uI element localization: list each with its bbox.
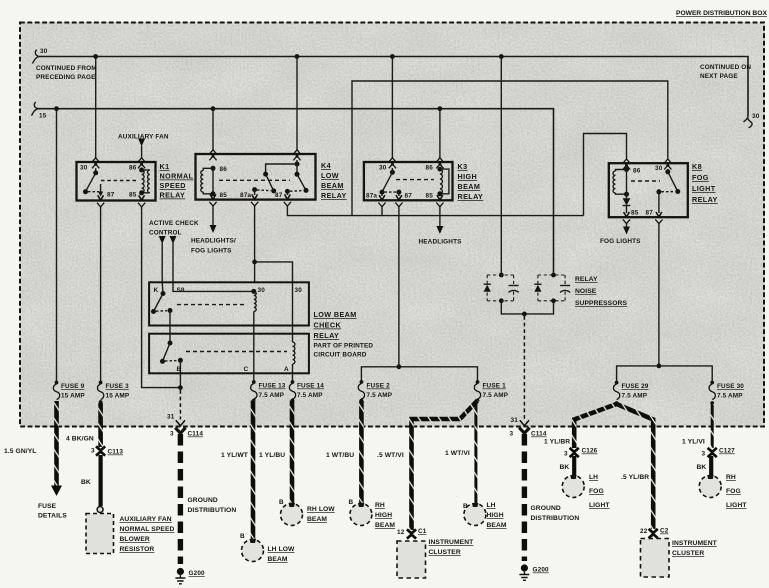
svg-text:1 WT/BU: 1 WT/BU — [326, 452, 354, 459]
K4 coil — [211, 166, 216, 171]
svg-text:K8: K8 — [692, 162, 702, 171]
svg-text:1 YL/VI: 1 YL/VI — [682, 439, 705, 446]
wire BK to LH fog — [572, 456, 576, 475]
K8 pin 87 exit — [655, 212, 662, 224]
svg-text:A: A — [284, 366, 289, 373]
svg-text:30: 30 — [752, 113, 760, 120]
svg-text:NEXT PAGE: NEXT PAGE — [700, 73, 738, 80]
svg-text:86: 86 — [129, 165, 137, 172]
svg-text:POWER DISTRIBUTION BOX: POWER DISTRIBUTION BOX — [676, 10, 767, 17]
svg-text:85: 85 — [129, 192, 137, 199]
svg-text:FOG: FOG — [589, 488, 604, 495]
svg-text:K1: K1 — [160, 162, 170, 171]
K3 switch — [390, 170, 395, 175]
ground distribution column 1 — [167, 385, 205, 584]
junction: bus15 to K3 86 — [438, 106, 443, 111]
node: 30 continuation squiggle left — [33, 50, 40, 64]
wire: K3 87 down — [398, 207, 400, 367]
svg-text:AUXILIARY FAN: AUXILIARY FAN — [118, 134, 169, 141]
RH high beam — [349, 499, 372, 526]
svg-text:LH: LH — [589, 474, 598, 481]
svg-text:7.5 AMP: 7.5 AMP — [717, 393, 743, 400]
svg-text:FOG LIGHTS: FOG LIGHTS — [600, 238, 641, 245]
svg-text:LIGHT: LIGHT — [692, 184, 716, 193]
fuse 9 — [53, 381, 85, 400]
thin wire: fuse 1 to LH high beam — [474, 402, 477, 504]
K4 pin 86 entry — [209, 150, 217, 161]
svg-text:30: 30 — [655, 165, 663, 172]
wire: K4 87 to low-beam feed rail — [287, 206, 583, 216]
svg-text:HIGH: HIGH — [458, 172, 478, 181]
K4 pin 30 entry — [293, 150, 301, 161]
svg-text:7.5 AMP: 7.5 AMP — [297, 392, 323, 399]
svg-text:BK: BK — [560, 464, 570, 471]
svg-text:INSTRUMENT: INSTRUMENT — [672, 540, 718, 547]
wire: K8 87 down — [658, 224, 660, 366]
svg-text:ACTIVE CHECK: ACTIVE CHECK — [149, 220, 199, 227]
K3 pin 30 entry — [388, 158, 396, 169]
check relay switch 2 — [169, 311, 171, 344]
K8 coil — [624, 167, 629, 172]
low beam check relay lower box — [149, 282, 309, 387]
thin wire: fuse 30 to C127 — [711, 404, 714, 448]
svg-text:7.5 AMP: 7.5 AMP — [259, 392, 285, 399]
svg-text:K4: K4 — [321, 161, 331, 170]
svg-text:3: 3 — [702, 451, 706, 458]
svg-text:LOW BEAM: LOW BEAM — [314, 310, 357, 319]
K1 pin 86 entry — [138, 158, 146, 169]
suppressor ground tie — [501, 301, 553, 314]
svg-text:CHECK: CHECK — [314, 321, 342, 330]
svg-text:15 AMP: 15 AMP — [106, 393, 130, 400]
svg-text:85: 85 — [220, 192, 228, 199]
svg-text:FOG: FOG — [726, 488, 741, 495]
svg-text:S8: S8 — [177, 287, 185, 294]
K8 pin 30 entry — [664, 159, 672, 170]
LH fog light — [562, 475, 584, 498]
instrument cluster 2 — [640, 528, 669, 578]
K4 pin 87a exit — [254, 190, 256, 195]
K3 pin 86 entry — [436, 158, 444, 169]
wire: rail up to K8 30 — [352, 81, 668, 216]
wire BK to resistor — [98, 455, 102, 506]
svg-text:RELAY: RELAY — [314, 331, 340, 340]
svg-text:INSTRUMENT: INSTRUMENT — [429, 539, 475, 546]
check relay switch 1 — [161, 291, 166, 296]
svg-text:FOG: FOG — [692, 173, 709, 182]
svg-text:85: 85 — [631, 210, 639, 217]
wire: split to FUSE 29 and FUSE 30 — [617, 366, 713, 382]
wire: rail to K8 86 — [584, 134, 627, 216]
svg-text:B: B — [349, 499, 354, 506]
svg-text:C114: C114 — [188, 431, 204, 438]
svg-text:BK: BK — [81, 479, 91, 486]
svg-text:22: 22 — [640, 528, 648, 535]
fuse 29 — [613, 381, 648, 405]
svg-text:HIGH: HIGH — [375, 512, 392, 519]
svg-text:C: C — [244, 366, 249, 373]
svg-text:RESISTOR: RESISTOR — [120, 546, 155, 553]
fuse 2 — [358, 380, 393, 402]
svg-text:3: 3 — [564, 451, 568, 458]
low beam check relay upper box — [149, 282, 309, 325]
fuse 30 — [709, 381, 744, 405]
instrument cluster 1 — [397, 528, 427, 578]
svg-text:FOG LIGHTS: FOG LIGHTS — [191, 248, 232, 255]
svg-text:RELAY: RELAY — [458, 192, 484, 201]
svg-text:LIGHT: LIGHT — [726, 502, 747, 509]
RH fog light — [699, 475, 721, 498]
ground distribution column 2 — [510, 316, 550, 580]
svg-text:NORMAL SPEED: NORMAL SPEED — [120, 526, 175, 533]
relay K1 box — [77, 158, 194, 207]
relay noise suppressor 1 — [484, 273, 519, 304]
check relay link 2 — [186, 351, 287, 353]
wire: active check control to check relay K — [161, 243, 163, 282]
svg-text:RELAY: RELAY — [692, 195, 718, 204]
svg-text:BEAM: BEAM — [487, 522, 507, 529]
svg-text:C2: C2 — [660, 528, 669, 535]
wire: bus15 to K4 pin86 — [212, 109, 214, 150]
svg-text:15 AMP: 15 AMP — [61, 393, 85, 400]
svg-text:1.5 GN/YL: 1.5 GN/YL — [4, 448, 37, 455]
svg-text:FUSE 30: FUSE 30 — [717, 383, 744, 390]
connector C126 — [570, 448, 579, 457]
wire: AUXILIARY FAN to K1 pin86 — [141, 146, 143, 158]
wire: bus30 to K3 pin30 — [391, 57, 393, 159]
suppressor 2 diode — [534, 285, 541, 292]
svg-text:3: 3 — [91, 448, 95, 455]
svg-text:85: 85 — [426, 193, 434, 200]
svg-text:RELAY: RELAY — [160, 191, 186, 200]
node: 15 continuation squiggle — [32, 102, 39, 116]
svg-text:BEAM: BEAM — [268, 556, 288, 563]
node: 30 continuation squiggle right — [744, 116, 753, 128]
svg-text:30: 30 — [295, 287, 303, 294]
svg-text:G200: G200 — [533, 567, 550, 574]
LH high beam — [463, 503, 486, 526]
svg-text:BEAM: BEAM — [458, 182, 481, 191]
K8 pin 86 entry — [623, 159, 631, 170]
svg-text:PART OF PRINTED: PART OF PRINTED — [314, 343, 374, 350]
svg-text:RELAY: RELAY — [321, 191, 347, 200]
svg-text:CONTROL: CONTROL — [149, 230, 182, 237]
svg-text:AUXILIARY FAN: AUXILIARY FAN — [120, 516, 172, 523]
svg-text:CLUSTER: CLUSTER — [429, 549, 461, 556]
thick wire: fuse 3 to C113 — [98, 403, 103, 447]
svg-text:BEAM: BEAM — [375, 522, 395, 529]
K1 pin 87 — [100, 184, 102, 194]
K8 pin 85 exit — [623, 212, 630, 224]
svg-text:FUSE 1: FUSE 1 — [483, 383, 507, 390]
svg-text:12: 12 — [397, 529, 405, 536]
svg-text:DISTRIBUTION: DISTRIBUTION — [188, 507, 237, 514]
svg-text:30: 30 — [258, 287, 266, 294]
junction: bus30 to K3 — [390, 54, 395, 59]
K1 pin 30 entry — [92, 158, 100, 169]
fuse 1 — [474, 380, 508, 402]
svg-text:G200: G200 — [189, 570, 206, 577]
fuse 3 — [97, 381, 129, 404]
wire: bus15 to FUSE 9 — [56, 109, 58, 382]
svg-text:4 BK/GN: 4 BK/GN — [66, 436, 94, 443]
thick wire: fuse 29 split — [574, 404, 616, 448]
K4 mechanical link — [219, 179, 290, 181]
svg-text:FUSE 13: FUSE 13 — [259, 383, 286, 390]
svg-text:87: 87 — [646, 210, 654, 217]
wire: bus30 to K1 pin30 — [95, 57, 97, 159]
svg-text:87a: 87a — [366, 193, 377, 200]
K8 diode — [623, 198, 631, 205]
K1 switch — [95, 168, 97, 173]
svg-text:CIRCUIT BOARD: CIRCUIT BOARD — [314, 352, 367, 359]
svg-text:LH: LH — [487, 502, 496, 509]
connector C127 — [708, 448, 717, 457]
svg-text:HIGH: HIGH — [487, 512, 504, 519]
svg-text:FUSE 2: FUSE 2 — [367, 383, 391, 390]
relay K3 box — [364, 158, 483, 207]
svg-text:1 WT/VI: 1 WT/VI — [445, 450, 470, 457]
S8 feed to coil 1 — [173, 282, 252, 291]
check relay coil A — [292, 282, 294, 342]
svg-text:30: 30 — [379, 165, 387, 172]
svg-text:BK: BK — [697, 464, 707, 471]
suppressor 2 capacitor — [564, 275, 566, 285]
svg-text:86: 86 — [633, 168, 641, 175]
wire: coil1 through to C terminal — [253, 311, 255, 382]
K8 mechanical link — [631, 180, 660, 182]
svg-text:HEADLIGHTS/: HEADLIGHTS/ — [191, 238, 236, 245]
wire 30 bus — [39, 57, 748, 117]
svg-text:FUSE 3: FUSE 3 — [106, 383, 130, 390]
svg-text:FUSE: FUSE — [38, 503, 57, 510]
svg-text:30: 30 — [40, 48, 48, 55]
svg-text:.5 WT/VI: .5 WT/VI — [377, 452, 404, 459]
suppressor 1 capacitor — [513, 275, 515, 285]
junction: bus15 to fuse 9 — [54, 106, 59, 111]
wire: branch to check relay second 30 — [255, 262, 293, 282]
svg-text:B: B — [279, 499, 284, 506]
wire: K1 85 ground side to C114 — [142, 206, 181, 388]
suppressor 1 diode — [484, 285, 491, 292]
auxiliary fan blower resistor — [86, 507, 114, 554]
thick wire: fuse 9 to fuse details — [54, 401, 59, 486]
K3 mechanical link — [396, 179, 434, 181]
check relay coil 1 — [254, 291, 256, 311]
wire: K4 87a to check relay — [254, 206, 256, 282]
svg-text:K: K — [154, 287, 159, 294]
wire: K3 87a down to rail — [381, 207, 383, 216]
svg-text:3: 3 — [510, 431, 514, 438]
K4 switch bracket — [295, 162, 300, 167]
svg-text:SUPPRESSORS: SUPPRESSORS — [575, 300, 627, 307]
svg-text:RELAY: RELAY — [575, 276, 598, 283]
wire: K3 85 to headlights arrow — [439, 207, 441, 227]
svg-text:30: 30 — [80, 165, 88, 172]
svg-text:LH LOW: LH LOW — [268, 546, 296, 553]
svg-text:GROUND: GROUND — [188, 497, 218, 504]
svg-text:87a: 87a — [240, 192, 251, 199]
svg-text:LIGHT: LIGHT — [589, 502, 610, 509]
LH low beam — [240, 533, 264, 562]
B wire exit — [179, 360, 181, 387]
svg-text:87: 87 — [405, 193, 413, 200]
K3 pin 87 exit — [398, 194, 400, 196]
svg-text:C1: C1 — [418, 528, 427, 535]
arrow from auxiliary fan — [138, 139, 145, 147]
svg-text:CONTINUED ON: CONTINUED ON — [700, 64, 751, 71]
svg-text:3: 3 — [170, 431, 174, 438]
K4 switch 1 — [263, 172, 268, 177]
junction: bus30 to K4 — [295, 54, 300, 59]
svg-text:CONTINUED FROM: CONTINUED FROM — [36, 65, 97, 72]
svg-text:RH: RH — [375, 502, 385, 509]
svg-text:DETAILS: DETAILS — [38, 513, 67, 520]
svg-text:DISTRIBUTION: DISTRIBUTION — [531, 515, 580, 522]
svg-text:86: 86 — [220, 166, 228, 173]
svg-text:1 YL/WT: 1 YL/WT — [221, 452, 249, 459]
thick wire: fuse 1 split jog — [412, 401, 478, 531]
relay K4 box — [196, 150, 347, 206]
thick wire: fuse 2 to RH high beam — [359, 401, 364, 504]
svg-text:BEAM: BEAM — [307, 516, 327, 523]
relay K8 box — [609, 159, 718, 224]
svg-text:7.5 AMP: 7.5 AMP — [367, 392, 393, 399]
svg-text:31: 31 — [167, 414, 175, 421]
K1 pin 85 exit — [138, 195, 145, 207]
svg-text:7.5 AMP: 7.5 AMP — [483, 392, 509, 399]
wire: split to FUSE 2 and FUSE 1 — [361, 367, 477, 382]
active check control arrows — [159, 236, 166, 244]
svg-text:B: B — [240, 533, 245, 540]
wire: K1 87 to FUSE 3 — [100, 206, 102, 382]
svg-text:SPEED: SPEED — [160, 181, 186, 190]
K3 pin 87a exit — [381, 194, 383, 196]
svg-text:C113: C113 — [108, 449, 124, 456]
svg-text:CLUSTER: CLUSTER — [672, 550, 704, 557]
RH low beam — [279, 499, 303, 526]
K1 coil — [139, 168, 144, 173]
thick wire: fuse 14 to RH low beam — [290, 401, 295, 504]
svg-text:7.5 AMP: 7.5 AMP — [622, 393, 648, 400]
wire 15 bus — [38, 109, 554, 275]
K3 coil — [437, 167, 442, 172]
K4 pin 85 exit — [209, 194, 216, 206]
svg-text:FUSE 14: FUSE 14 — [297, 383, 324, 390]
junction: bus30 to suppressor 1 — [499, 54, 504, 59]
svg-text:HEADLIGHTS: HEADLIGHTS — [419, 239, 463, 246]
svg-text:FUSE 29: FUSE 29 — [622, 383, 649, 390]
svg-text:C114: C114 — [531, 431, 547, 438]
fuse 14 — [289, 380, 324, 402]
svg-text:1 YL/BR: 1 YL/BR — [544, 439, 570, 446]
svg-text:K3: K3 — [458, 162, 468, 171]
svg-text:C126: C126 — [582, 448, 598, 455]
svg-text:C127: C127 — [719, 448, 735, 455]
svg-text:BLOWER: BLOWER — [120, 536, 150, 543]
svg-text:31: 31 — [511, 417, 519, 424]
svg-text:LOW: LOW — [321, 171, 339, 180]
K8 switch — [665, 169, 670, 174]
wire: bus30 to noise suppressor 1 — [500, 57, 502, 276]
wire: bus30 to K4 pin30 — [296, 57, 298, 151]
wire: K8 85 to fog lights arrow — [626, 224, 628, 227]
svg-text:RH: RH — [726, 474, 736, 481]
svg-text:NOISE: NOISE — [575, 288, 597, 295]
svg-text:87: 87 — [275, 192, 283, 199]
power distribution box shaded interior — [20, 22, 765, 427]
junction: bus30 to K1 — [93, 54, 98, 59]
svg-text:PRECEDING PAGE: PRECEDING PAGE — [36, 74, 96, 81]
svg-text:87: 87 — [107, 192, 115, 199]
K4 pin 87 exit — [286, 191, 288, 195]
svg-text:15: 15 — [39, 113, 47, 120]
svg-text:GROUND: GROUND — [531, 505, 561, 512]
svg-text:NORMAL: NORMAL — [160, 172, 194, 181]
fuse 13 — [251, 380, 286, 402]
K4 switch 2 — [295, 172, 300, 177]
wire: K4 85 to headlights/fog lights arrow — [212, 206, 214, 225]
svg-text:BEAM: BEAM — [321, 181, 344, 190]
power distribution box dashed border — [20, 23, 764, 427]
thick wire: fuse 13 to LH low beam — [251, 401, 256, 540]
junction: bus15 to K4 86 — [211, 106, 216, 111]
svg-text:RH LOW: RH LOW — [307, 506, 335, 513]
wire: active check control to check relay S8 — [172, 243, 174, 282]
wire BK to RH fog — [709, 456, 713, 475]
svg-text:.5 YL/BR: .5 YL/BR — [621, 474, 649, 481]
svg-text:FUSE 9: FUSE 9 — [61, 383, 85, 390]
connector C113 — [96, 446, 105, 455]
wire: bus15 to K3 pin86 — [439, 109, 441, 158]
svg-text:1 YL/BU: 1 YL/BU — [259, 452, 285, 459]
K3 pin 85 exit — [436, 195, 443, 207]
svg-text:86: 86 — [426, 165, 434, 172]
svg-text:B: B — [463, 503, 468, 510]
relay noise suppressor 2 — [534, 273, 570, 304]
check relay link 1 — [177, 304, 247, 306]
